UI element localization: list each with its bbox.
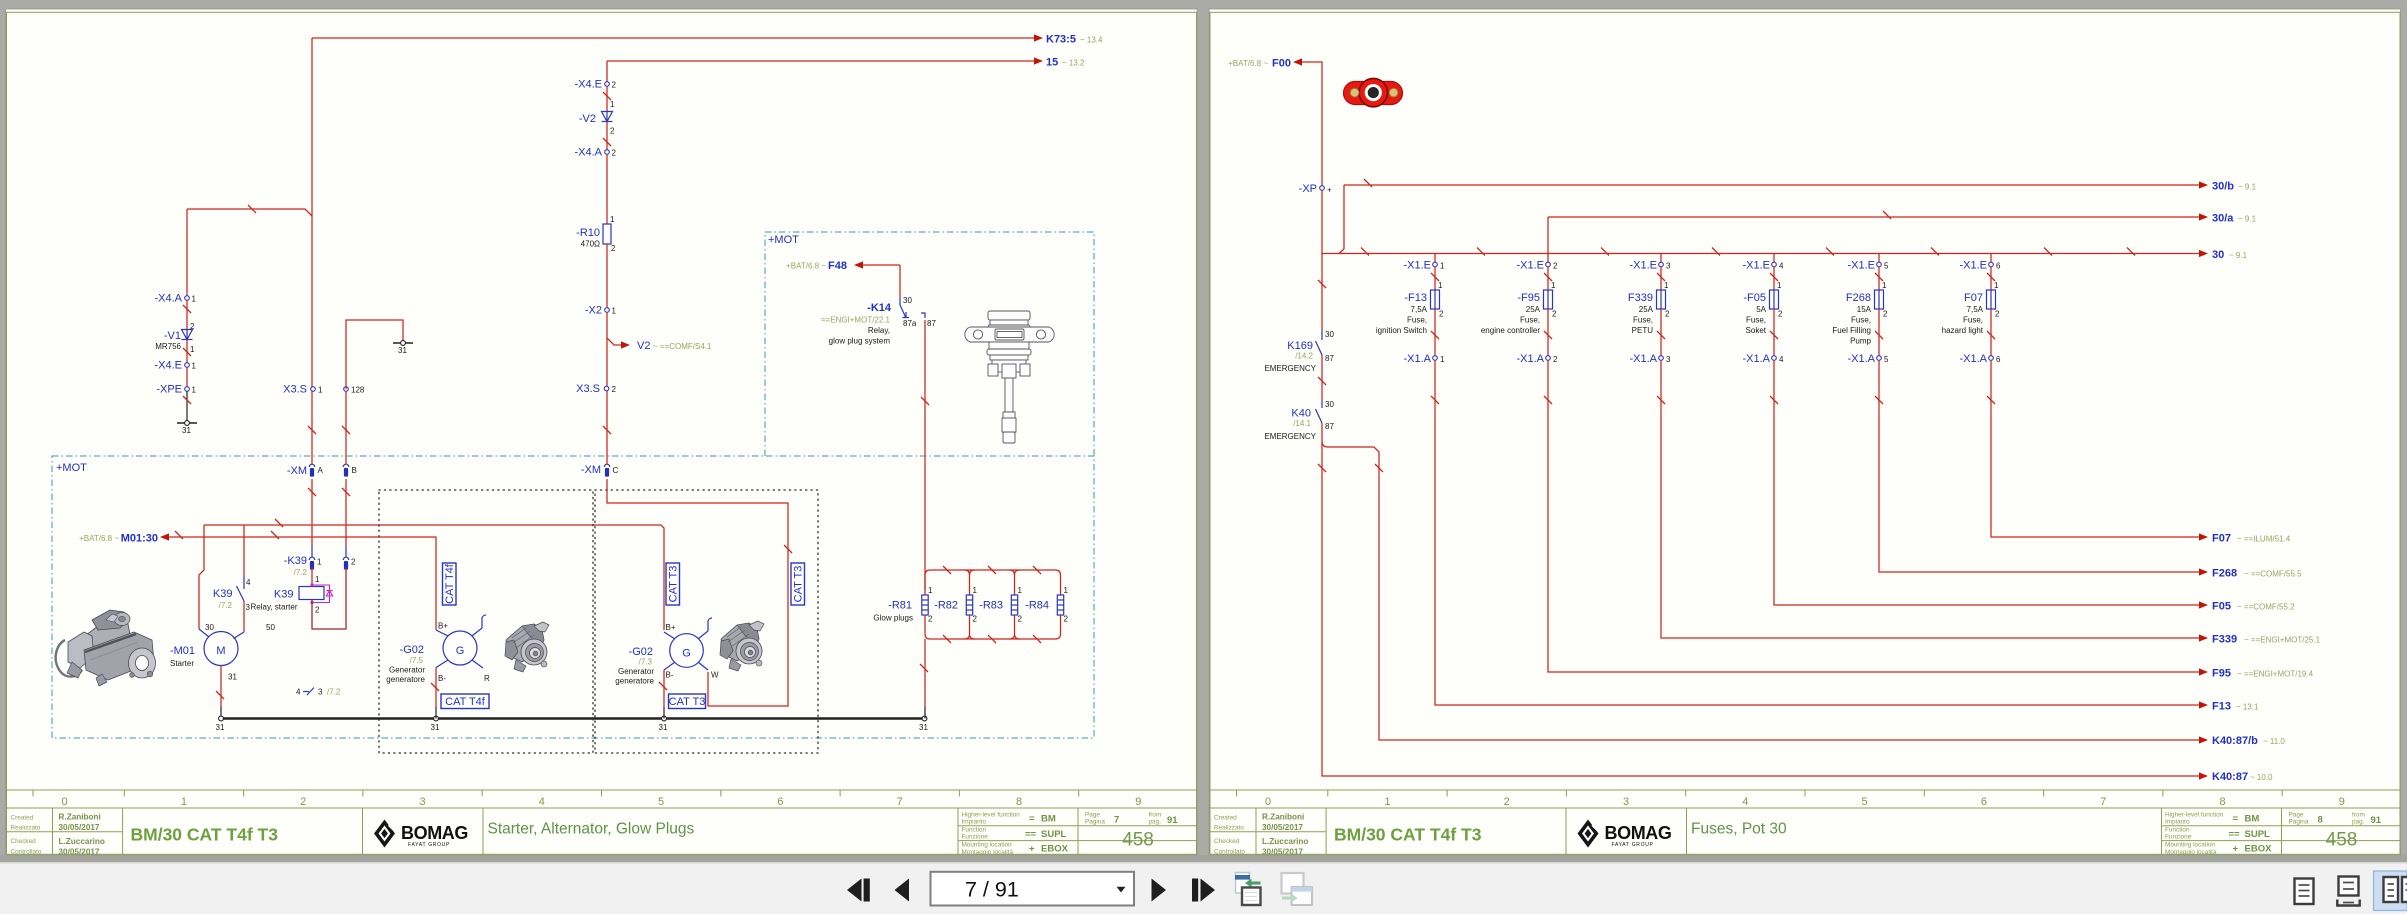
wire starter 30 feed	[199, 525, 204, 629]
svg-text:K73:5: K73:5	[1046, 34, 1076, 46]
wire mark	[1987, 331, 1995, 339]
connector -XM:B	[343, 464, 357, 476]
svg-text:2: 2	[1504, 796, 1510, 808]
svg-text:Pagina: Pagina	[1085, 819, 1105, 826]
svg-text:1: 1	[1018, 586, 1023, 595]
svg-text:5: 5	[1862, 796, 1868, 808]
relay contact K39 4/3	[213, 576, 298, 632]
svg-text:1: 1	[1384, 796, 1390, 808]
svg-text:1: 1	[1994, 281, 1999, 290]
terminal -X1.E:2	[1516, 260, 1558, 272]
wire K73:5 feed	[312, 37, 1034, 39]
svg-text:-X1.A: -X1.A	[1742, 353, 1770, 365]
svg-text:EMERGENCY: EMERGENCY	[1264, 432, 1316, 441]
svg-text:1: 1	[318, 386, 323, 395]
fuse -F95 25A	[1481, 281, 1557, 335]
battery terminal connector image	[1344, 78, 1403, 106]
wire mark	[1875, 331, 1883, 339]
svg-text:pag.: pag.	[1149, 819, 1162, 826]
svg-text:25A: 25A	[1639, 305, 1654, 314]
svg-text:9: 9	[2339, 796, 2345, 808]
svg-text:L.Zuccarino: L.Zuccarino	[59, 837, 105, 846]
page 7 page number fields	[1085, 812, 1178, 851]
page 8 BOMAG logo	[1578, 820, 1672, 849]
svg-text:K40:87/b: K40:87/b	[2212, 735, 2258, 747]
svg-text:6: 6	[1996, 262, 2001, 271]
wire branch K40:87/b	[1322, 441, 2199, 740]
svg-text:-V1: -V1	[164, 330, 181, 342]
svg-text:7: 7	[897, 796, 903, 808]
wire mark	[216, 691, 224, 699]
svg-text:Funzione: Funzione	[962, 834, 989, 841]
svg-text:1: 1	[315, 575, 320, 584]
svg-text:BM: BM	[2245, 814, 2260, 825]
toolbar single-page-view button	[2295, 879, 2314, 905]
fuse F339 25A	[1628, 281, 1670, 335]
glow plug -R83	[979, 586, 1022, 624]
svg-text:31: 31	[216, 723, 225, 732]
svg-text:Soket: Soket	[1746, 326, 1767, 335]
svg-text:=: =	[2233, 814, 2239, 825]
wire mark	[1875, 273, 1883, 281]
svg-text:~ ==ENGI+MOT/19.4: ~ ==ENGI+MOT/19.4	[2237, 670, 2314, 679]
svg-text:470Ω: 470Ω	[581, 240, 600, 249]
wire M01 31 black tail	[220, 707, 222, 719]
dotted box CAT T4f	[379, 490, 593, 753]
alternator image CAT T4f	[505, 622, 549, 672]
glow plug network bottom rail	[925, 615, 1061, 639]
svg-text:Created: Created	[11, 815, 34, 822]
wire -XPE:1 to ground	[186, 391, 188, 421]
link 4-3 /7.2	[296, 688, 341, 697]
svg-text:-R83: -R83	[979, 600, 1003, 612]
svg-text:1: 1	[1438, 281, 1443, 290]
svg-text:==: ==	[2229, 829, 2241, 840]
svg-text:ignition Switch: ignition Switch	[1376, 326, 1427, 335]
svg-text:Starter: Starter	[170, 659, 194, 668]
svg-text:~ 11.0: ~ 11.0	[2263, 737, 2285, 746]
wire -V2 to -X4.A:2	[606, 122, 608, 150]
toolbar background	[0, 855, 2407, 914]
link arrow M01:30 +BAT/6.8	[79, 533, 169, 545]
page 7 drawing frame	[7, 12, 1197, 854]
svg-text:BM/30 CAT T4f T3: BM/30 CAT T4f T3	[131, 825, 279, 845]
svg-text:4: 4	[296, 688, 301, 697]
wire mark	[183, 348, 191, 356]
wire mark	[1770, 396, 1778, 404]
link arrow F48 +BAT/6.8	[786, 260, 900, 272]
svg-text:2: 2	[1553, 262, 1558, 271]
svg-text:~ ==COMF/55.2: ~ ==COMF/55.2	[2237, 603, 2295, 612]
svg-text:-R84: -R84	[1025, 600, 1049, 612]
svg-text:+: +	[1029, 844, 1035, 855]
svg-text:K169: K169	[1287, 340, 1313, 352]
svg-text:4: 4	[1779, 355, 1784, 364]
svg-text:=: =	[1029, 814, 1035, 825]
svg-text:F95: F95	[2212, 668, 2231, 680]
svg-text:30/a: 30/a	[2212, 213, 2234, 225]
svg-text:1: 1	[1064, 586, 1069, 595]
svg-text:+BAT/6.8 ~: +BAT/6.8 ~	[786, 262, 826, 271]
svg-text:Glow plugs: Glow plugs	[873, 614, 913, 623]
svg-text:+MOT: +MOT	[56, 462, 87, 474]
link arrow F00 +BAT/6.8	[1228, 58, 1302, 70]
wire to fuse	[1660, 267, 1662, 291]
svg-text:7: 7	[1114, 815, 1119, 826]
svg-text:EMERGENCY: EMERGENCY	[1264, 364, 1316, 373]
wire rail 30 drop to -X1.E:1	[1434, 254, 1436, 263]
terminal -X1.A:5	[1847, 353, 1889, 365]
svg-text:1: 1	[181, 796, 187, 808]
svg-text:-X4.E: -X4.E	[154, 360, 182, 372]
wire -X4.E:1 to -XPE:1	[186, 367, 188, 387]
svg-text:Generator: Generator	[389, 666, 425, 675]
svg-text:-X4.E: -X4.E	[574, 79, 602, 91]
wire mark	[1657, 396, 1665, 404]
page 8 drawing frame	[1210, 12, 2400, 854]
svg-text:2: 2	[190, 322, 195, 331]
svg-text:3: 3	[1666, 262, 1671, 271]
svg-text:K39: K39	[274, 589, 294, 601]
svg-text:Fuse,: Fuse,	[1746, 316, 1766, 325]
svg-text:87: 87	[1325, 422, 1334, 431]
fuse -F05 5A	[1743, 281, 1783, 335]
svg-text:Montaggio località: Montaggio località	[2165, 849, 2217, 856]
wire mark	[784, 545, 792, 553]
page 8 title block table	[1210, 808, 2400, 855]
wire mark	[342, 426, 350, 434]
wire -K39:1 to coil K39	[311, 567, 313, 586]
svg-text:B-: B-	[666, 671, 674, 680]
fuse -F13 7,5A	[1376, 281, 1444, 335]
svg-text:R: R	[484, 674, 490, 683]
arrow F05	[2199, 601, 2295, 613]
svg-text:F07: F07	[2212, 533, 2231, 545]
wire -V1 to -X4.E:1	[186, 340, 188, 363]
svg-text:-M01: -M01	[170, 645, 195, 657]
terminal -X4.E:1	[154, 360, 196, 372]
connector -K39:2	[343, 557, 356, 569]
fuse F07 7,5A	[1942, 281, 2000, 335]
glow plug network top rail	[925, 570, 1061, 595]
svg-text:-F13: -F13	[1404, 292, 1427, 304]
wire mark	[1033, 566, 1041, 574]
page 8 sheet	[1209, 9, 2401, 855]
wire mark	[1883, 211, 1891, 219]
svg-text:-X1.A: -X1.A	[1629, 353, 1657, 365]
svg-text:1: 1	[973, 586, 978, 595]
wire mark	[1657, 273, 1665, 281]
svg-text:-X4.A: -X4.A	[574, 147, 602, 159]
svg-text:Impianto: Impianto	[962, 819, 987, 826]
wire fuse to -X1.A	[1878, 309, 1880, 356]
page 8 page number fields	[2289, 812, 2382, 851]
wire mark	[1657, 331, 1665, 339]
wire mark	[1318, 377, 1326, 385]
svg-text:Created: Created	[1214, 815, 1237, 822]
bus junction G02 T4f	[431, 716, 440, 732]
toolbar page number box	[931, 872, 1135, 906]
arrow 30/b	[2199, 181, 2257, 193]
svg-text:-F05: -F05	[1743, 292, 1766, 304]
wire mark	[603, 92, 611, 100]
svg-text:F268: F268	[2212, 568, 2237, 580]
wire 30/b drop	[1339, 185, 1344, 254]
wire coil K39 to -K39:2 loop	[312, 567, 346, 629]
svg-text:~ 9.1: ~ 9.1	[2238, 215, 2257, 224]
svg-text:2: 2	[1778, 310, 1783, 319]
motor -M01 starter	[170, 623, 276, 682]
svg-text:M: M	[216, 645, 225, 657]
svg-text:R.Zaniboni: R.Zaniboni	[59, 813, 101, 822]
label box CAT T4f horizontal	[441, 694, 489, 709]
wire battery to B+ of -G02 CAT T3	[204, 525, 664, 630]
svg-text:Mounting location: Mounting location	[2165, 842, 2216, 849]
svg-text:+: +	[2233, 844, 2239, 855]
svg-text:BM: BM	[1041, 814, 1056, 825]
wire mark	[2127, 248, 2135, 256]
svg-text:Montaggio località: Montaggio località	[962, 849, 1014, 856]
terminal -X1.E:3	[1629, 260, 1671, 272]
wire -X1.A:5 down to F268 arrow	[1879, 360, 2199, 572]
svg-text:+BAT/6.8 ~: +BAT/6.8 ~	[1228, 59, 1268, 68]
page 8 function fields	[2165, 812, 2272, 856]
svg-text:B+: B+	[666, 623, 676, 632]
generator -G02 CAT T3	[615, 618, 719, 686]
svg-text:Impianto: Impianto	[2165, 819, 2190, 826]
wire mark	[1318, 464, 1326, 472]
arrow K73:5	[1034, 34, 1043, 41]
connector -XM:A	[287, 464, 324, 477]
svg-text:4: 4	[539, 796, 545, 808]
svg-text:3: 3	[1623, 796, 1629, 808]
arrow F339	[2199, 634, 2321, 646]
svg-text:CAT T4f: CAT T4f	[444, 563, 456, 604]
glow plug -R81	[873, 586, 933, 624]
svg-text:~ ==COMF/55.5: ~ ==COMF/55.5	[2244, 570, 2302, 579]
terminal -X4.E:2	[574, 79, 616, 91]
svg-text:from: from	[2352, 812, 2365, 819]
svg-text:X3.S: X3.S	[576, 383, 600, 395]
svg-text:31: 31	[182, 426, 191, 435]
svg-text:1: 1	[192, 386, 197, 395]
svg-text:F13: F13	[2212, 701, 2231, 713]
wire mark	[2044, 248, 2052, 256]
svg-text:30/05/2017: 30/05/2017	[59, 847, 100, 856]
wire K169:87 to K40:30	[1321, 355, 1323, 400]
svg-text:Realizzato: Realizzato	[1214, 825, 1244, 832]
svg-text:==: ==	[1025, 829, 1037, 840]
svg-text:K39: K39	[213, 588, 233, 600]
wire -X2:1 down	[606, 312, 608, 464]
wire G02 T3 B- black tail	[663, 707, 665, 719]
svg-text:/7.2: /7.2	[219, 601, 233, 610]
svg-text:4: 4	[1779, 262, 1784, 271]
wire -X1.A:4 down to F05 arrow	[1774, 360, 2199, 605]
wire mark	[1712, 248, 1720, 256]
wire from K73:5 corner down to -XM:A	[311, 38, 313, 464]
svg-text:30/05/2017: 30/05/2017	[1262, 823, 1303, 832]
wire mark	[1544, 331, 1552, 339]
svg-text:-XM: -XM	[581, 464, 601, 476]
svg-text:F07: F07	[1964, 292, 1983, 304]
svg-text:glow plug system: glow plug system	[829, 337, 891, 346]
svg-text:31: 31	[228, 673, 237, 682]
toolbar scrolling-view button	[2337, 877, 2359, 906]
svg-text:31: 31	[659, 723, 668, 732]
svg-text:-X2: -X2	[585, 305, 602, 317]
svg-text:2: 2	[351, 558, 356, 567]
svg-text:Higher-level function: Higher-level function	[2165, 812, 2224, 819]
page 7 title texts created/checked	[11, 813, 105, 857]
svg-text:BOMAG: BOMAG	[1605, 823, 1672, 843]
svg-text:Starter, Alternator, Glow Plug: Starter, Alternator, Glow Plugs	[488, 821, 695, 838]
svg-text:engine controller: engine controller	[1481, 326, 1540, 335]
relay coil K39	[274, 575, 333, 615]
wire to fuse	[1990, 267, 1992, 291]
svg-text:1: 1	[1440, 355, 1445, 364]
svg-text:25A: 25A	[1526, 305, 1541, 314]
svg-text:Checked: Checked	[1214, 838, 1240, 845]
wire -K14:87 down to glow plugs	[924, 320, 926, 590]
svg-text:B+: B+	[438, 622, 448, 631]
svg-text:BM/30 CAT T4f T3: BM/30 CAT T4f T3	[1334, 825, 1482, 845]
svg-text:30: 30	[903, 296, 912, 305]
svg-text:Relay,: Relay,	[868, 326, 890, 335]
svg-text:-G02: -G02	[400, 644, 424, 656]
arrow F13	[2199, 701, 2259, 713]
svg-text:~ 9.1: ~ 9.1	[2229, 251, 2248, 260]
wire mark	[988, 566, 996, 574]
wire mark	[1477, 248, 1485, 256]
svg-text:~ ==ILUM/51.4: ~ ==ILUM/51.4	[2237, 535, 2291, 544]
toolbar previous-page button	[895, 879, 910, 902]
svg-text:128: 128	[351, 386, 365, 395]
toolbar swap-page-right button (disabled)	[1282, 873, 1313, 905]
dotted box CAT T3	[595, 490, 818, 753]
svg-text:PETU: PETU	[1632, 326, 1654, 335]
svg-text:BOMAG: BOMAG	[401, 823, 468, 843]
svg-text:-XP: -XP	[1299, 183, 1317, 195]
svg-text:1: 1	[1882, 281, 1887, 290]
arrow F95	[2199, 668, 2314, 680]
wire -X4.A:1 to -V1	[186, 300, 188, 330]
wire mark	[1431, 273, 1439, 281]
svg-text:-X1.E: -X1.E	[1847, 260, 1875, 272]
page 7 sheet description	[488, 821, 695, 838]
svg-text:~ 10.0: ~ 10.0	[2250, 773, 2273, 782]
svg-text:6: 6	[777, 796, 783, 808]
bus junction M01	[216, 716, 225, 732]
svg-text:3: 3	[318, 688, 323, 697]
connector -XM:C	[581, 464, 619, 477]
arrow F07	[2199, 533, 2291, 545]
svg-text:C: C	[613, 466, 619, 475]
svg-text:2: 2	[1552, 310, 1557, 319]
wire mark	[920, 664, 928, 672]
terminal -X1.A:4	[1742, 353, 1784, 365]
svg-text:30: 30	[205, 623, 214, 632]
arrow F268	[2199, 568, 2302, 580]
svg-text:5A: 5A	[1756, 305, 1766, 314]
wire branch to -X4.A:1	[187, 209, 312, 216]
svg-text:~ 13.4: ~ 13.4	[1080, 36, 1103, 45]
svg-text:6: 6	[1996, 355, 2001, 364]
page 7 sheet	[6, 9, 1198, 855]
svg-text:/7.2: /7.2	[327, 688, 341, 697]
svg-text:2: 2	[1064, 615, 1069, 624]
svg-text:2: 2	[1665, 310, 1670, 319]
terminal -X2:1	[585, 305, 617, 317]
svg-text:6: 6	[1981, 796, 1987, 808]
svg-text:458: 458	[2326, 830, 2358, 851]
svg-text:-X1.E: -X1.E	[1516, 260, 1544, 272]
svg-text:9: 9	[1135, 796, 1141, 808]
svg-text:Controllato: Controllato	[11, 848, 42, 855]
wire -X4.A:1 lead	[186, 209, 188, 296]
arrow 30/a	[2199, 213, 2257, 225]
svg-text:/7.3: /7.3	[639, 658, 653, 667]
diode -V1 MR756	[155, 322, 195, 354]
wire mark	[603, 426, 611, 434]
bus junction glow plugs	[919, 716, 928, 732]
svg-text:1: 1	[610, 215, 615, 224]
wire F00 to -XP	[1302, 62, 1322, 186]
svg-text:2: 2	[610, 127, 615, 136]
page 8 column ruler	[1237, 790, 2345, 808]
svg-text:/14.1: /14.1	[1293, 419, 1311, 428]
wire -X4.A:2 to -R10	[606, 154, 608, 224]
wire mark	[1987, 396, 1995, 404]
relay contact K40 30/87 EMERGENCY	[1264, 400, 1334, 441]
svg-text:1: 1	[612, 307, 617, 316]
page 7 project title BM/30 CAT T4f T3	[131, 825, 279, 845]
terminal -X1.A:2	[1516, 353, 1558, 365]
svg-text:-X1.A: -X1.A	[1847, 353, 1875, 365]
svg-text:31: 31	[431, 723, 440, 732]
svg-text:Controllato: Controllato	[1214, 848, 1245, 855]
wire mark	[1431, 331, 1439, 339]
wire mark	[248, 205, 256, 213]
wire -XP to bus 30	[1321, 190, 1323, 330]
wire mark	[603, 138, 611, 146]
wire mark	[275, 519, 283, 527]
wire rail 30 drop to -X1.E:3	[1660, 254, 1662, 263]
svg-text:~ ==ENGI+MOT/25.1: ~ ==ENGI+MOT/25.1	[2244, 636, 2321, 645]
svg-text:Fuse,: Fuse,	[1520, 316, 1540, 325]
svg-text:2: 2	[612, 385, 617, 394]
svg-text:2: 2	[1439, 310, 1444, 319]
wire mark	[921, 397, 929, 405]
svg-text:2: 2	[300, 796, 306, 808]
svg-text:2: 2	[1995, 310, 2000, 319]
svg-text:Fuses, Pot 30: Fuses, Pot 30	[1691, 821, 1787, 838]
wire 15 feed	[607, 60, 1034, 62]
svg-text:from: from	[1149, 812, 1162, 819]
svg-text:-R82: -R82	[934, 600, 958, 612]
svg-text:Function: Function	[2165, 827, 2190, 834]
svg-text:2: 2	[1883, 310, 1888, 319]
svg-text:8: 8	[2219, 796, 2225, 808]
svg-text:8: 8	[1016, 796, 1022, 808]
page 7 function fields	[962, 812, 1069, 856]
svg-text:1: 1	[610, 100, 615, 109]
page 8 title texts created/checked	[1214, 813, 1308, 857]
svg-text:2: 2	[611, 244, 616, 253]
terminal X3.S:128	[344, 386, 365, 395]
svg-text:-V2: -V2	[579, 113, 596, 125]
wire glow plugs to bus	[924, 639, 926, 707]
